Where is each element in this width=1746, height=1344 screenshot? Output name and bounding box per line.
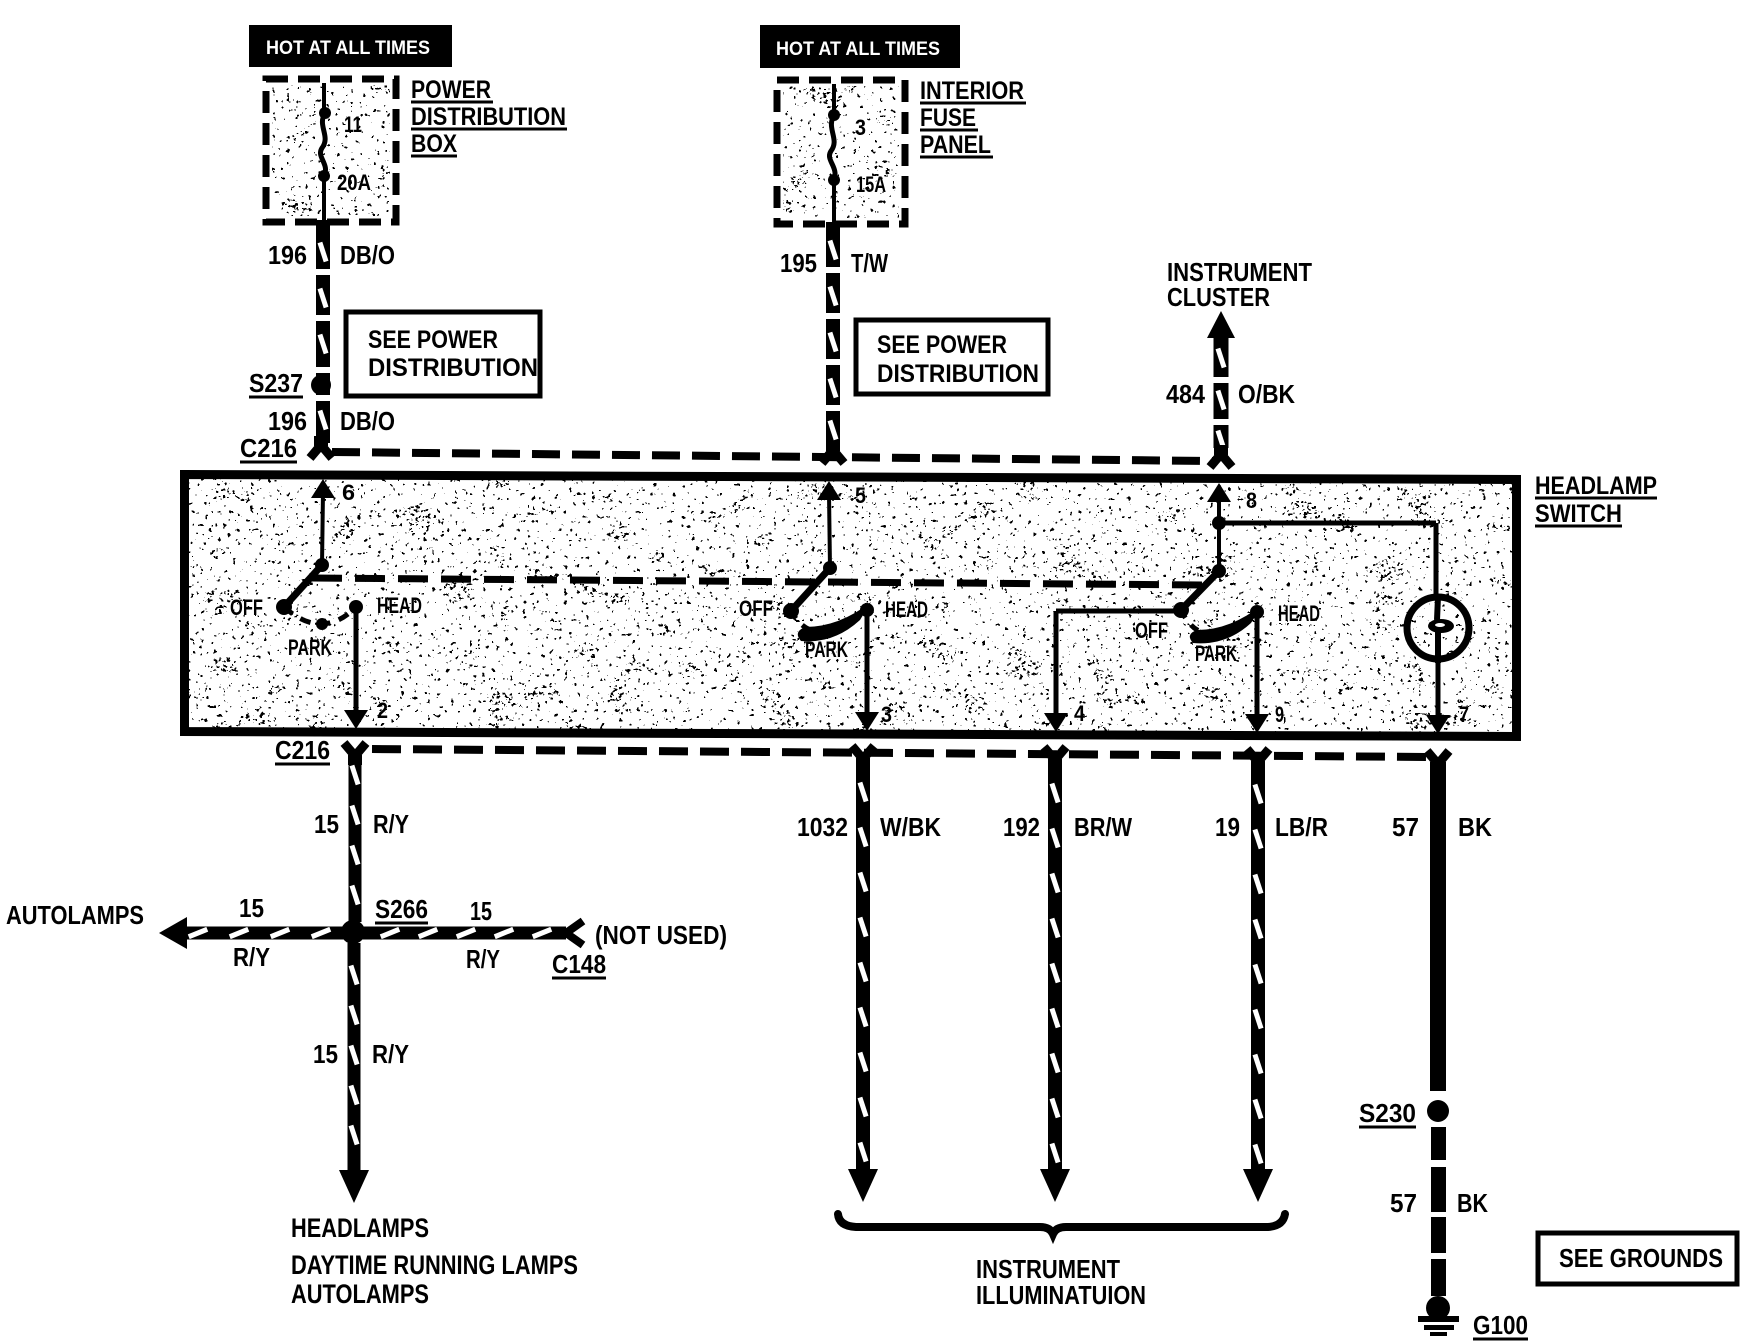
power distribution box (dashed) [266,79,396,222]
brace (instrument illumination) [838,1214,1285,1234]
svg-text:3: 3 [881,702,892,727]
svg-text:PARK: PARK [288,635,332,660]
wire 15 R/Y (lower) with arrow [339,943,369,1203]
wire 192 BR/W with arrow [1040,766,1070,1202]
note box SEE GROUNDS [1538,1233,1737,1284]
node label HEADLAMP SWITCH [1535,472,1657,528]
pin 7 arrow [1426,659,1469,734]
switch 2 HEAD terminal [860,597,928,622]
svg-text:BK: BK [1457,1188,1488,1218]
svg-text:DB/O: DB/O [340,240,395,270]
svg-text:HOT AT ALL TIMES: HOT AT ALL TIMES [266,38,430,59]
svg-text:R/Y: R/Y [373,809,409,839]
connector C148 [552,949,606,979]
wire label 15 R/Y (upper) [314,809,409,839]
svg-text:PANEL: PANEL [920,131,991,159]
svg-text:S230: S230 [1359,1098,1416,1128]
wire to C148 (not used) [362,921,583,945]
svg-text:3: 3 [855,115,866,140]
svg-text:1032: 1032 [797,812,848,842]
label box HOT AT ALL TIMES (middle) [760,25,960,68]
connector at bus (wire 1032) [852,746,874,759]
connector at bus (wire 19) [1247,749,1269,762]
headlamp switch box [185,475,1517,737]
svg-text:2: 2 [377,698,388,723]
pin 3 arrow [855,610,892,731]
connector C216 (bottom) [275,735,366,765]
wire label 484 O/BK [1166,379,1295,409]
svg-text:15: 15 [470,896,492,926]
wire 484 O/BK with arrow to instrument cluster [1207,311,1235,467]
svg-text:OFF: OFF [230,595,263,620]
junction to panel lamp [1212,516,1226,530]
panel lamp [1407,597,1469,663]
svg-text:DAYTIME RUNNING LAMPS: DAYTIME RUNNING LAMPS [291,1250,578,1280]
svg-text:HEAD: HEAD [1278,601,1320,626]
svg-text:PARK: PARK [1195,641,1237,666]
svg-text:INTERIOR: INTERIOR [920,77,1024,105]
switch 3 OFF terminal [1135,602,1189,643]
bus wire (dashed) C216 top [332,452,1213,461]
svg-text:57: 57 [1392,812,1419,842]
svg-text:HOT AT ALL TIMES: HOT AT ALL TIMES [776,39,940,60]
switch 2 wiper (thick, at PARK/HEAD) [798,602,871,641]
svg-text:19: 19 [1215,812,1240,842]
svg-text:HEADLAMP: HEADLAMP [1535,472,1657,500]
svg-text:196: 196 [268,406,307,436]
pin 9 arrow [1245,612,1284,733]
svg-text:195: 195 [780,248,817,278]
connector at bus (wire 195) [822,441,844,463]
switch 2 pivot [823,561,837,575]
switch 1 OFF terminal [230,595,292,620]
wire 15 R/Y (upper) [349,761,362,922]
svg-text:SWITCH: SWITCH [1535,500,1622,528]
svg-text:20A: 20A [337,170,371,195]
svg-text:G100: G100 [1473,1310,1528,1340]
svg-text:POWER: POWER [411,76,491,104]
branch wire to panel lamp [1219,523,1436,599]
svg-text:15: 15 [313,1039,338,1069]
wire label 196 DB/O (lower) [268,406,395,436]
node label INTERIOR FUSE PANEL [920,77,1026,159]
svg-text:HEADLAMPS: HEADLAMPS [291,1213,429,1243]
label box HOT AT ALL TIMES (left) [249,25,452,67]
svg-text:OFF: OFF [1135,618,1168,643]
svg-text:SEE POWER: SEE POWER [877,331,1007,359]
switch 2 OFF terminal [739,596,799,621]
svg-text:T/W: T/W [851,248,888,278]
svg-text:S266: S266 [375,894,428,924]
svg-text:15A: 15A [856,172,886,197]
svg-text:15: 15 [314,809,339,839]
svg-text:15: 15 [239,893,264,923]
connector C216 (top) [240,433,332,463]
wire label 196 DB/O (upper) [268,240,395,270]
splice S266 dot [341,920,365,944]
wire junction to pivot [1217,523,1221,571]
svg-text:AUTOLAMPS: AUTOLAMPS [6,900,144,930]
node label INSTRUMENT CLUSTER [1167,257,1312,312]
switch 3 PARK label [1195,641,1237,666]
wire label 195 T/W [780,248,888,278]
wire label 57 BK (lower) [1390,1188,1488,1218]
svg-text:(NOT USED): (NOT USED) [595,920,727,950]
switch 2 PARK label [805,637,848,662]
svg-text:PARK: PARK [805,637,848,662]
svg-text:5: 5 [855,483,866,508]
interior fuse panel box (dashed) [777,80,905,224]
svg-text:DB/O: DB/O [340,406,395,436]
switch 3 travel arc (dashed) [1181,610,1204,633]
pin 8 arrow [1207,483,1257,523]
fuse 3 15A [828,84,886,222]
wire to AUTOLAMPS (left arrow) [159,917,344,949]
svg-text:SEE GROUNDS: SEE GROUNDS [1559,1243,1723,1273]
pin 2 arrow [344,607,388,729]
svg-text:9: 9 [1275,702,1284,727]
svg-text:DISTRIBUTION: DISTRIBUTION [877,360,1039,388]
connector at bus (wire 57) [1427,751,1449,764]
splice S230 [1359,1098,1449,1128]
connector at bus (wire 192) [1044,747,1066,760]
pin 5 arrow [817,481,866,568]
wire label 192 BR/W [1003,812,1132,842]
wire label 57 BK (upper) [1392,812,1492,842]
wire 19 LB/R with arrow [1243,767,1273,1202]
splice S266 [375,894,428,924]
svg-text:LB/R: LB/R [1275,812,1328,842]
svg-text:8: 8 [1246,488,1257,513]
wire 1032 W/BK with arrow [848,765,878,1202]
switch 3 wiper (thick, at PARK/HEAD) [1190,604,1263,643]
internal dashed line of switch [312,578,1205,585]
wire 195 T/W [825,222,841,446]
svg-text:11: 11 [344,112,362,137]
wire OFF3 to pin 4 [1056,611,1181,714]
svg-text:R/Y: R/Y [466,944,500,974]
svg-text:7: 7 [1459,702,1469,727]
pin 4 arrow [1044,701,1086,732]
svg-text:ILLUMINATUION: ILLUMINATUION [976,1280,1146,1310]
svg-text:CLUSTER: CLUSTER [1167,282,1270,312]
switch 2 lever (to OFF) [791,568,830,611]
wire label 15 R/Y (lower) [313,1039,409,1069]
svg-text:196: 196 [268,240,307,270]
note box SEE POWER DISTRIBUTION (middle) [856,320,1048,394]
svg-text:OFF: OFF [739,596,773,621]
svg-text:C148: C148 [552,949,606,979]
node label POWER DISTRIBUTION BOX [411,76,567,158]
svg-text:O/BK: O/BK [1238,379,1295,409]
svg-text:57: 57 [1390,1188,1417,1218]
pin 6 arrow [311,479,355,565]
node label INSTRUMENT ILLUMINATUION [976,1254,1146,1310]
switch 1 lever (to OFF) [284,565,322,607]
svg-text:484: 484 [1166,379,1205,409]
wire 57 BK (solid) [1430,762,1446,1091]
svg-text:BK: BK [1458,812,1492,842]
splice S237 [249,368,331,398]
node label AUTOLAMPS (left) [6,900,144,930]
switch 1 travel arc (dashed) [284,607,356,624]
wire 57 BK (dashed to ground) [1431,1127,1446,1296]
switch 2 travel arc (dashed) [791,611,813,631]
label (NOT USED) [595,920,727,950]
svg-text:R/Y: R/Y [233,942,270,972]
switch 3 HEAD terminal [1250,601,1320,626]
switch 3 pivot [1212,564,1226,578]
wire label 19 LB/R [1215,812,1328,842]
svg-text:R/Y: R/Y [372,1039,409,1069]
svg-text:192: 192 [1003,812,1040,842]
bus wire (dashed) C216 bottom [372,749,1428,757]
switch 1 HEAD terminal [349,593,422,618]
svg-text:S237: S237 [249,368,303,398]
svg-text:W/BK: W/BK [880,812,941,842]
svg-text:AUTOLAMPS: AUTOLAMPS [291,1279,429,1309]
wire label 15 / R/Y (left branch) [233,893,270,972]
svg-text:BOX: BOX [411,130,457,158]
svg-text:C216: C216 [275,735,330,765]
svg-text:C216: C216 [240,433,297,463]
fuse 11 20A [318,83,371,220]
node label HEADLAMPS / DRL / AUTOLAMPS [291,1213,578,1309]
wire label 15 / R/Y (right branch) [466,896,500,974]
svg-text:HEAD: HEAD [377,593,422,618]
wire label 1032 W/BK [797,812,941,842]
svg-text:SEE POWER: SEE POWER [368,326,498,354]
note box SEE POWER DISTRIBUTION (left) [346,312,540,396]
ground G100 [1418,1296,1528,1340]
svg-text:BR/W: BR/W [1074,812,1132,842]
svg-text:FUSE: FUSE [920,104,976,132]
switch 1 pivot [315,558,329,572]
switch 1 PARK terminal [288,618,332,660]
svg-text:DISTRIBUTION: DISTRIBUTION [368,354,538,382]
wire 196 DB/O (fuse box to C216) [315,220,331,443]
svg-text:DISTRIBUTION: DISTRIBUTION [411,103,566,131]
svg-text:4: 4 [1074,701,1086,726]
svg-text:HEAD: HEAD [885,597,928,622]
svg-text:6: 6 [342,480,355,505]
switch 3 lever (to OFF) [1181,571,1219,610]
